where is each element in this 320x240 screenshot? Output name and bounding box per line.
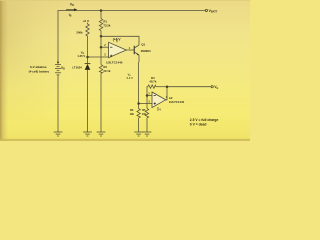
page bottom edge shading <box>0 139 250 141</box>
wire: R5 bottom to ground <box>146 118 148 132</box>
page top edge shading <box>0 0 250 1</box>
wire: R1 bottom to R2 top (divider column) <box>100 31 102 65</box>
svg-text:10k: 10k <box>130 112 135 116</box>
svg-text:10k: 10k <box>142 112 147 116</box>
wire: Q1 emitter down to VE node <box>138 55 140 62</box>
op-amp U1 minus sign <box>110 46 112 48</box>
wire: +6V stub to 200k <box>87 23 89 24</box>
resistor R5 zigzag <box>145 109 148 118</box>
ground: LT1634 <box>83 132 92 136</box>
current arrow on battery wire <box>57 60 59 63</box>
op-amp U2 plus sign <box>154 102 156 104</box>
junction: rail to R1 <box>100 9 103 12</box>
junction: A2 output node <box>166 85 169 88</box>
resistor R3 zigzag <box>137 104 140 118</box>
svg-text:1.25 V: 1.25 V <box>77 54 85 58</box>
junction: divider to Q1 collector wire <box>100 35 103 38</box>
svg-text:6-V alkaline: 6-V alkaline <box>30 65 47 69</box>
svg-text:R3: R3 <box>130 108 134 112</box>
svg-text:+6 V: +6 V <box>83 19 90 23</box>
svg-text:0-2 V: 0-2 V <box>127 76 133 80</box>
junction: VE node <box>137 102 140 105</box>
wire: A1 output to Q1 base <box>126 49 134 51</box>
svg-text:1/2LTC1440: 1/2LTC1440 <box>106 61 123 65</box>
svg-text:73.2k: 73.2k <box>103 23 110 27</box>
op-amp U2 1/2 LTC1440 triangle <box>152 92 166 108</box>
svg-text:LT1634: LT1634 <box>72 66 82 70</box>
svg-text:0 V = dead: 0 V = dead <box>190 123 207 127</box>
terminal: VBATT <box>205 9 207 11</box>
svg-text:2.5 V = full charge: 2.5 V = full charge <box>190 118 219 122</box>
svg-text:2N3904: 2N3904 <box>141 49 151 53</box>
svg-text:VBATT: VBATT <box>209 9 218 13</box>
svg-text:(+6 V: (+6 V <box>113 38 122 42</box>
current arrow IB on rail <box>66 8 77 11</box>
op-amp U2 minus sign <box>154 95 156 97</box>
ground: battery <box>54 132 63 136</box>
wire: divider node to Q1 collector <box>101 36 139 45</box>
page left edge shading <box>0 0 8 141</box>
wire: R3 bottom to ground <box>138 118 140 132</box>
wire: VE node to A2 pin3 <box>139 103 152 105</box>
wire: VR node to A1 pin3 <box>88 56 109 58</box>
svg-text:VB: VB <box>70 3 74 8</box>
junction: divider tap to A1 pin2 <box>100 46 103 49</box>
wire: top VB rail <box>58 11 205 65</box>
svg-text:1/2LTC1440: 1/2LTC1440 <box>169 100 185 104</box>
wire: battery negative to ground <box>57 75 59 132</box>
junction: A2 inverting input node <box>146 94 149 97</box>
wire: divider tap to A1 pin2 <box>101 46 109 48</box>
wire: R2 bottom to ground <box>100 73 102 132</box>
wire: R4 feedback left leg <box>146 87 149 96</box>
junction: VR node <box>86 56 89 59</box>
transistor Q1 2N3904 <box>134 45 139 55</box>
terminal: VG <box>211 86 213 88</box>
resistor R4 zigzag <box>148 85 156 89</box>
svg-text:48.7k: 48.7k <box>149 79 156 83</box>
svg-text:R5: R5 <box>142 108 146 112</box>
ground: R2 <box>97 132 106 136</box>
wire: A2 pin4 stub <box>157 107 159 111</box>
background paper <box>0 0 250 141</box>
svg-text:Q1: Q1 <box>141 43 145 47</box>
svg-text:(4-cell) battery: (4-cell) battery <box>29 70 50 74</box>
ground: R5 <box>143 132 152 136</box>
ground: R3 <box>134 132 143 136</box>
wire: 200k bottom to VR node <box>87 36 89 64</box>
wire: LT1634 anode to ground <box>87 70 89 132</box>
svg-text:22.1k: 22.1k <box>103 69 110 73</box>
wire: R4 right leg to output node <box>156 86 167 88</box>
resistor 200k zigzag <box>86 24 89 36</box>
resistor R2 zigzag <box>99 65 102 74</box>
page upper-left tint <box>0 0 70 120</box>
op-amp U1 1/2 LTC1440 triangle <box>109 42 127 57</box>
wire: A1 V+ stub <box>116 39 118 42</box>
battery B1 cells <box>55 64 61 75</box>
svg-text:200k: 200k <box>76 30 83 34</box>
wire: A2 pin2 node <box>147 95 152 97</box>
wire: R1 top lead from rail <box>100 11 102 19</box>
wire: R5 top lead <box>146 96 148 109</box>
wire: output node to VG terminal <box>167 86 211 88</box>
resistor R1 zigzag <box>99 19 102 31</box>
op-amp U1 plus sign <box>110 55 112 57</box>
zener D1 LT1634 <box>85 64 91 70</box>
wire: A2 output lead <box>166 87 167 100</box>
